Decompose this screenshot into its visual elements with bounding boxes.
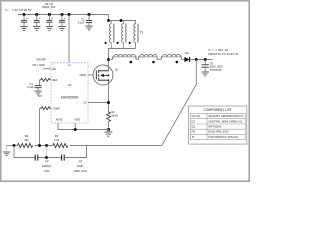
svg-text:COMP: COMP	[53, 107, 61, 110]
svg-text:CENTRAL SEMI CMR1U-02: CENTRAL SEMI CMR1U-02	[208, 119, 242, 123]
svg-text:10pF,: 10pF,	[77, 164, 84, 168]
svg-text:C3: C3	[30, 82, 34, 86]
svg-text:62k: 62k	[24, 138, 29, 142]
svg-text:39mΩ: 39mΩ	[111, 114, 118, 117]
svg-text:C4: C4	[79, 159, 83, 163]
svg-text:NDRV: NDRV	[80, 74, 87, 77]
svg-text:CS: CS	[83, 101, 87, 104]
svg-text:V₀⁘: V₀⁘	[68, 64, 73, 67]
svg-text:Q1: Q1	[192, 125, 196, 129]
svg-text:PX/G5700: PX/G5700	[210, 68, 222, 72]
svg-text:ON = GND: ON = GND	[32, 63, 45, 67]
svg-text:1000pF,: 1000pF,	[42, 164, 52, 168]
svg-text:C2: C2	[45, 159, 49, 163]
svg-text:D2: D2	[192, 119, 196, 123]
svg-text:COILTRONICS VPS-023: COILTRONICS VPS-023	[208, 135, 238, 139]
svg-text:D2: D2	[185, 51, 189, 55]
svg-text:MAX5069A: MAX5069A	[61, 96, 79, 100]
svg-text:U1: U1	[68, 83, 72, 87]
svg-text:R8: R8	[39, 94, 43, 98]
svg-text:IRF7811W: IRF7811W	[208, 125, 221, 129]
svg-text:GND: GND	[74, 119, 80, 122]
svg-text:560µF, 35V: 560µF, 35V	[42, 5, 55, 9]
svg-text:REF: REF	[53, 79, 58, 82]
svg-text:C6–C9: C6–C9	[192, 114, 201, 118]
svg-text:0.1µF: 0.1µF	[27, 85, 34, 89]
svg-text:V₀⁘ = 9V TO 16.5V: V₀⁘ = 9V TO 16.5V	[5, 8, 31, 12]
svg-text:100V, C0G: 100V, C0G	[74, 169, 88, 173]
svg-text:R5: R5	[192, 130, 196, 134]
svg-text:T1: T1	[192, 135, 196, 139]
svg-text:C0G: C0G	[44, 169, 50, 173]
svg-text:DALE WSL-2010: DALE WSL-2010	[208, 130, 229, 134]
svg-text:EN: EN	[53, 68, 57, 71]
svg-text:ON/OFF: ON/OFF	[36, 58, 46, 62]
svg-text:FROM 9V TO 16.5V IN: FROM 9V TO 16.5V IN	[208, 52, 238, 56]
svg-text:R3: R3	[55, 134, 59, 138]
svg-text:R2: R2	[25, 134, 29, 138]
svg-text:22µF/25V CERAMIC/SANYO: 22µF/25V CERAMIC/SANYO	[208, 114, 243, 118]
svg-text:2.2k: 2.2k	[54, 138, 60, 142]
svg-text:0.1µF: 0.1µF	[78, 21, 85, 25]
svg-text:T1: T1	[140, 31, 144, 35]
svg-text:COMPONENT LIST: COMPONENT LIST	[204, 108, 232, 112]
svg-text:Q1: Q1	[115, 67, 119, 71]
svg-text:AGND: AGND	[56, 119, 63, 122]
